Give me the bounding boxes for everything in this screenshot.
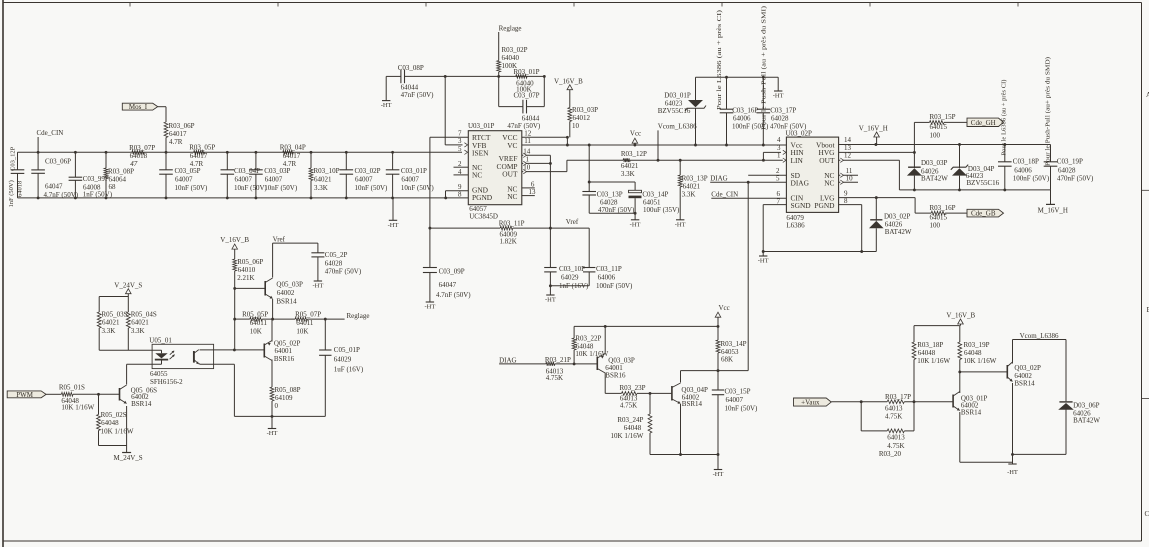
op-amp U03_02P body — [786, 129, 839, 212]
wire R05_05P row — [235, 318, 345, 321]
svg-text:C03_06P: C03_06P — [45, 158, 71, 166]
svg-text:Mos_I: Mos_I — [129, 103, 148, 111]
ground -HT under C03_01P — [388, 198, 399, 229]
svg-text:C03_08P: C03_08P — [398, 64, 424, 72]
U03_01P NC stubs left — [454, 167, 469, 175]
svg-text:-HT: -HT — [312, 283, 323, 290]
svg-text:64002: 64002 — [1014, 372, 1032, 380]
svg-text:R03_14P: R03_14P — [721, 340, 747, 348]
resistor R03_16P — [915, 204, 967, 230]
wire opto block bottom rail — [234, 415, 325, 417]
svg-text:10nF (50V): 10nF (50V) — [175, 184, 209, 192]
U03_01P left pin names — [472, 133, 493, 202]
svg-text:D03_06P: D03_06P — [1073, 401, 1100, 409]
node VFB junction dot — [444, 75, 447, 78]
svg-text:Cde_CIN: Cde_CIN — [37, 129, 64, 137]
svg-text:100nF (50V): 100nF (50V) — [1013, 175, 1050, 183]
svg-text:64051: 64051 — [643, 198, 661, 206]
svg-text:Vcc: Vcc — [719, 304, 730, 312]
svg-text:D03_01P: D03_01P — [664, 92, 691, 100]
svg-text:Pour le L6386 (au + près CI): Pour le L6386 (au + près CI) — [716, 10, 723, 110]
svg-text:64021: 64021 — [131, 319, 149, 327]
wire bootstrap top rail — [696, 77, 779, 91]
node DIAG (bottom label) — [499, 357, 516, 365]
power V_16V_H — [859, 124, 888, 144]
svg-text:BSR14: BSR14 — [961, 409, 982, 417]
svg-text:Pour le Push-Pull (au+ près du: Pour le Push-Pull (au+ près du SMD) — [1044, 57, 1051, 166]
svg-text:100: 100 — [930, 221, 941, 229]
svg-text:10nF (50V): 10nF (50V) — [725, 405, 759, 413]
resistor R05_01S — [59, 383, 95, 411]
wire pin7 RTCT — [430, 137, 468, 267]
svg-text:R03_21P: R03_21P — [545, 356, 571, 364]
op-amp U03_01P body — [468, 122, 522, 205]
ground -HT under R03_13P — [675, 220, 686, 229]
tag Cde_GH — [967, 118, 1004, 127]
svg-text:C03_14P: C03_14P — [642, 190, 668, 198]
svg-text:6: 6 — [777, 190, 781, 198]
svg-text:64047: 64047 — [439, 281, 457, 289]
svg-text:C03_17P: C03_17P — [770, 107, 796, 115]
svg-text:64006: 64006 — [733, 115, 751, 123]
wire pin13 HVG — [839, 151, 916, 154]
svg-text:V_16V_B: V_16V_B — [554, 78, 583, 86]
U03_01P part labels — [469, 205, 498, 220]
svg-text:1: 1 — [526, 155, 530, 163]
svg-text:OUT: OUT — [502, 170, 518, 179]
svg-text:C03_15P: C03_15P — [725, 388, 751, 396]
svg-text:64007: 64007 — [265, 176, 283, 184]
svg-text:470nF (50V): 470nF (50V) — [1057, 175, 1094, 183]
svg-text:DIAG: DIAG — [499, 357, 516, 365]
svg-text:64028: 64028 — [1058, 166, 1076, 174]
svg-text:100: 100 — [930, 132, 941, 140]
svg-text:Q05_03P: Q05_03P — [276, 280, 303, 288]
resistor R03_19P — [958, 326, 997, 374]
svg-text:3.3K: 3.3K — [131, 327, 145, 335]
resistor R03_22P — [572, 326, 608, 364]
U03_02P left pin names — [791, 140, 812, 210]
transistor Q03_01P (NPN) — [953, 372, 987, 462]
wire pin9 LVG — [839, 196, 916, 213]
svg-text:BSR16: BSR16 — [605, 372, 626, 380]
svg-text:100uF (35V): 100uF (35V) — [643, 206, 680, 214]
wire M_24V_S bottom — [99, 445, 127, 447]
svg-text:47: 47 — [130, 160, 138, 168]
svg-text:-HT: -HT — [773, 93, 784, 100]
svg-text:BZV55C16: BZV55C16 — [658, 107, 691, 115]
svg-text:10nF (50V): 10nF (50V) — [355, 184, 389, 192]
capacitor C03_15P — [712, 371, 758, 456]
svg-text:R03_03P: R03_03P — [572, 106, 598, 114]
svg-text:68: 68 — [109, 183, 117, 191]
svg-text:PGND: PGND — [814, 201, 835, 210]
svg-text:R05_03S: R05_03S — [102, 310, 128, 318]
resistor R05_03S — [97, 297, 127, 351]
U03_01P right pin names — [497, 133, 518, 201]
svg-text:64021: 64021 — [102, 319, 120, 327]
tag +Vaux — [794, 398, 832, 407]
resistor R03_23P — [620, 384, 672, 410]
svg-text:1.82K: 1.82K — [500, 237, 517, 245]
wire V_16V_B rail (aux) — [914, 325, 960, 327]
svg-text:10K 1/16W: 10K 1/16W — [611, 432, 644, 440]
svg-text:R03_11P: R03_11P — [499, 220, 525, 228]
wire pin6 CIN — [711, 197, 786, 199]
power Vcc (mid) — [630, 129, 641, 146]
svg-text:Cde_GB: Cde_GB — [971, 210, 996, 218]
svg-text:64011: 64011 — [250, 319, 268, 327]
resistor R05_02S — [97, 394, 134, 445]
tag Mos_I — [122, 103, 157, 111]
svg-text:D03_02P: D03_02P — [884, 212, 911, 220]
capacitor C03_16P — [720, 76, 769, 147]
ground -HT under C03_14P — [630, 220, 641, 229]
wire HIN loop — [762, 150, 786, 162]
resistor R05_04S — [126, 297, 156, 351]
svg-text:10K: 10K — [250, 327, 262, 335]
svg-text:V_16V_B: V_16V_B — [946, 311, 975, 319]
U03_02P right pin names — [814, 140, 835, 210]
node Vref (label) — [566, 218, 579, 226]
svg-text:U03_02P: U03_02P — [786, 129, 813, 137]
svg-text:D03_03P: D03_03P — [921, 159, 948, 167]
wire Vcc rail — [522, 144, 787, 147]
ground -HT aux block — [1007, 464, 1018, 476]
transistor Q05_06S (NPN) — [120, 364, 158, 445]
svg-text:64029: 64029 — [561, 274, 579, 282]
svg-text:BSR16: BSR16 — [274, 355, 295, 363]
svg-text:64007: 64007 — [355, 176, 373, 184]
power V_16V_B (top) — [554, 78, 583, 90]
resistor R05_07P — [295, 310, 321, 335]
svg-text:64018: 64018 — [130, 152, 148, 160]
svg-text:3.3K: 3.3K — [102, 327, 116, 335]
svg-text:64028: 64028 — [771, 115, 789, 123]
svg-text:10nF (50V): 10nF (50V) — [401, 184, 435, 192]
resistor R03_05P — [189, 144, 215, 168]
svg-text:R05_05P: R05_05P — [242, 310, 268, 318]
svg-text:C: C — [1145, 510, 1149, 518]
svg-text:470nF (50V): 470nF (50V) — [325, 267, 362, 275]
svg-text:-HT: -HT — [675, 221, 686, 228]
ground -HT SGND — [758, 252, 769, 265]
wire LED cathode return — [127, 363, 162, 365]
svg-text:C03_12P: C03_12P — [10, 146, 17, 171]
svg-text:4.7R: 4.7R — [169, 138, 183, 146]
frame zone ticks top — [130, 3, 1018, 7]
svg-text:13: 13 — [529, 188, 537, 196]
svg-text:Q03_02P: Q03_02P — [1014, 364, 1041, 372]
diode D03_02P — [869, 198, 912, 252]
svg-text:-HT: -HT — [758, 258, 769, 265]
power V_16V_B (aux) — [946, 311, 975, 325]
svg-text:64048: 64048 — [576, 342, 594, 350]
wire Vref to C03_11P — [550, 228, 589, 267]
svg-text:64017: 64017 — [190, 152, 208, 160]
capacitor C03_08P — [398, 64, 434, 99]
svg-text:2.21K: 2.21K — [237, 274, 254, 282]
svg-text:BSR14: BSR14 — [131, 400, 152, 408]
node Cde_CIN (label) — [37, 129, 64, 154]
svg-text:10K 1/16W: 10K 1/16W — [61, 404, 94, 412]
capacitor C03_14P (polarized) — [589, 182, 680, 220]
svg-text:11: 11 — [524, 137, 531, 145]
svg-text:R03_06P: R03_06P — [169, 122, 195, 130]
wire LED anode — [99, 349, 161, 351]
diode D03_01P — [658, 77, 706, 146]
tag PWM — [7, 391, 46, 399]
svg-text:5: 5 — [458, 145, 462, 153]
resistor R05_05P — [242, 310, 268, 335]
svg-text:R03_16P: R03_16P — [930, 204, 956, 212]
svg-text:NC: NC — [507, 192, 517, 201]
svg-text:-HT: -HT — [388, 222, 399, 229]
svg-text:U03_01P: U03_01P — [468, 122, 495, 130]
capacitor C03_09P — [423, 268, 471, 303]
svg-text:64055: 64055 — [150, 370, 168, 378]
svg-text:64006: 64006 — [1014, 166, 1032, 174]
svg-text:64007: 64007 — [401, 176, 419, 184]
power V_24V_S — [114, 281, 142, 296]
svg-text:Cde_GH: Cde_GH — [971, 119, 996, 127]
svg-text:R03_15P: R03_15P — [930, 113, 956, 121]
wire pin3 VFB — [445, 76, 467, 147]
wire DIAG block bottom rail — [650, 453, 718, 456]
svg-text:PGND: PGND — [472, 193, 493, 202]
svg-text:-HT: -HT — [381, 102, 392, 109]
resistor R03_10P — [309, 151, 340, 199]
U03_02P left pin numbers — [776, 136, 781, 206]
resistor R03_07P — [129, 144, 155, 168]
opto U05_01 phototransistor — [194, 350, 199, 365]
U03_02P NC stubs right — [839, 173, 858, 184]
svg-text:C05_01P: C05_01P — [334, 346, 360, 354]
pin5 ISEN arrow — [464, 150, 467, 154]
svg-text:8: 8 — [458, 191, 462, 199]
wire opto emitter drop — [200, 363, 235, 416]
svg-text:64047: 64047 — [45, 183, 63, 191]
svg-text:V_16V_B: V_16V_B — [220, 236, 249, 244]
svg-text:10K 1/16W: 10K 1/16W — [101, 428, 134, 436]
resistor R03_14P — [716, 326, 747, 372]
resistor R03_03P — [568, 90, 598, 138]
svg-text:R03_12P: R03_12P — [621, 150, 647, 158]
capacitor C03_18P — [998, 145, 1050, 190]
svg-text:BSR14: BSR14 — [682, 400, 703, 408]
svg-text:64015: 64015 — [930, 214, 948, 222]
svg-text:C03_13P: C03_13P — [597, 190, 623, 198]
node M_24V_S — [114, 446, 143, 463]
ground -HT under C03_10P — [545, 286, 556, 304]
svg-text:DIAG: DIAG — [710, 175, 728, 183]
frame zone ticks right — [1142, 190, 1149, 398]
svg-text:ISEN: ISEN — [472, 148, 489, 157]
capacitor C03_07P — [499, 75, 546, 130]
tag Cde_GB — [967, 209, 1004, 217]
diode D03_03P — [907, 152, 948, 190]
svg-text:Vref: Vref — [273, 236, 286, 244]
svg-text:64028: 64028 — [325, 260, 343, 268]
svg-text:8: 8 — [844, 197, 848, 205]
svg-text:Pour le L6386 (au + près CI): Pour le L6386 (au + près CI) — [1001, 80, 1008, 156]
resistor R03_18P — [912, 326, 950, 402]
wire DIAG line — [499, 362, 575, 365]
opto U05_01 body — [149, 337, 213, 369]
svg-text:64017: 64017 — [283, 152, 301, 160]
svg-text:L6386: L6386 — [786, 221, 805, 229]
svg-text:R03_18P: R03_18P — [917, 341, 943, 349]
svg-text:100nF (50V): 100nF (50V) — [596, 282, 633, 290]
node Reglage (top) — [499, 24, 522, 32]
wire aux bottom rail — [1013, 453, 1067, 455]
wire pin2 SD — [748, 174, 786, 176]
vertical note Pour le L6386 (right) — [1001, 80, 1008, 156]
resistor R03_15P — [914, 113, 967, 152]
svg-text:SFH6156-2: SFH6156-2 — [150, 378, 183, 386]
svg-text:R03_01P: R03_01P — [514, 68, 540, 76]
svg-text:0: 0 — [275, 402, 279, 410]
svg-text:470nF (50V): 470nF (50V) — [598, 206, 635, 214]
wire opto collector to base row — [200, 348, 265, 351]
svg-text:Vcc: Vcc — [630, 129, 641, 137]
svg-text:3.3K: 3.3K — [314, 184, 328, 192]
svg-text:10K 1/16W: 10K 1/16W — [964, 357, 997, 365]
wire Q03_02P base row — [960, 371, 1008, 373]
wire pin5 DIAG — [710, 181, 786, 184]
svg-text:R05_06P: R05_06P — [237, 258, 263, 266]
power V_16V_B (opto block) — [220, 236, 249, 259]
transistor Q03_02P (NPN) — [1007, 340, 1041, 465]
svg-text:4.75K: 4.75K — [887, 442, 904, 450]
wire pin9 GND — [444, 191, 468, 200]
resistor R03_12P — [621, 150, 647, 178]
svg-text:V_16V_H: V_16V_H — [859, 124, 888, 132]
node Vcom_L6386 (aux label) — [1020, 332, 1059, 340]
svg-text:1nF (50V): 1nF (50V) — [83, 191, 113, 199]
svg-text:Reglage: Reglage — [499, 24, 522, 32]
svg-text:-HT: -HT — [630, 221, 641, 228]
capacitor C03_02P — [340, 151, 389, 199]
wire pin7 SGND — [763, 205, 786, 252]
ground -HT opto block — [267, 416, 278, 437]
svg-text:-HT: -HT — [267, 430, 278, 437]
wire DIAG drop (SD/DIAG to transistor) — [681, 182, 749, 370]
svg-text:10K: 10K — [296, 327, 308, 335]
svg-text:-HT: -HT — [424, 304, 435, 311]
svg-text:BSR14: BSR14 — [276, 297, 297, 305]
resistor R03_11P — [428, 220, 551, 246]
svg-text:C03_99P: C03_99P — [83, 175, 109, 183]
ground -HT under C05_2P — [312, 281, 323, 290]
svg-text:OUT: OUT — [819, 156, 835, 165]
svg-text:C05_2P: C05_2P — [325, 251, 348, 259]
svg-text:V_24V_S: V_24V_S — [114, 281, 142, 289]
capacitor C03_04P — [221, 151, 268, 199]
svg-text:R03_24P: R03_24P — [617, 416, 643, 424]
svg-text:PWM: PWM — [16, 391, 34, 399]
transistor Q05_02P (PNP) — [264, 319, 300, 387]
capacitor C03_19P — [1044, 145, 1094, 190]
svg-text:64040: 64040 — [502, 54, 520, 62]
svg-text:Pour le Push-Pull (au + près d: Pour le Push-Pull (au + près du SMI) — [761, 6, 768, 130]
svg-text:BZV55C16: BZV55C16 — [967, 179, 1000, 187]
svg-text:64048: 64048 — [918, 349, 936, 357]
opto U05_01 part labels — [150, 370, 183, 386]
svg-text:Cde_CIN: Cde_CIN — [711, 191, 738, 199]
svg-text:R03_08P: R03_08P — [108, 168, 134, 176]
wire 24V resistor pair top — [99, 296, 128, 298]
capacitor C03_13P — [582, 144, 635, 215]
svg-text:4.7R: 4.7R — [283, 160, 297, 168]
ground -HT under C03_09P — [424, 302, 435, 311]
U03_01P NC stubs right — [522, 188, 535, 196]
node DIAG (label) — [710, 175, 728, 183]
svg-text:4.7R: 4.7R — [190, 160, 204, 168]
svg-text:C03_02P: C03_02P — [355, 167, 381, 175]
wire Vcom line — [1013, 339, 1067, 341]
node Vref (block label) — [273, 236, 286, 244]
svg-text:BSR14: BSR14 — [1014, 380, 1035, 388]
svg-text:3.3K: 3.3K — [682, 190, 696, 198]
capacitor C03_01P — [386, 151, 435, 199]
wire +Vaux line — [831, 400, 953, 403]
svg-text:R03_17P: R03_17P — [885, 393, 911, 401]
svg-text:-HT: -HT — [545, 297, 556, 304]
node Vcom_L6386 stub — [657, 123, 698, 162]
svg-text:R05_08P: R05_08P — [275, 386, 301, 394]
svg-text:C03_09P: C03_09P — [439, 268, 465, 276]
resistor R03_06P — [164, 122, 195, 154]
svg-text:M_16V_H: M_16V_H — [1038, 207, 1068, 215]
svg-text:R03_02P: R03_02P — [502, 46, 528, 54]
svg-text:R03_22P: R03_22P — [575, 335, 601, 343]
svg-text:64015: 64015 — [930, 123, 948, 131]
resistor R03_24P — [611, 393, 652, 454]
svg-text:VC: VC — [507, 141, 517, 150]
wire lower gate rail — [899, 188, 1050, 191]
svg-text:C03_11P: C03_11P — [596, 265, 622, 273]
resistor R03_13P — [678, 159, 707, 220]
svg-text:64007: 64007 — [726, 396, 744, 404]
node Cde_CIN (mid label) — [711, 191, 738, 199]
vertical note Pour le L6386 (left) — [716, 10, 723, 110]
svg-text:C03_18P: C03_18P — [1013, 158, 1039, 166]
node M_16V_H — [1038, 190, 1068, 215]
svg-text:64109: 64109 — [275, 394, 293, 402]
svg-text:64007: 64007 — [175, 176, 193, 184]
frame zone letter A — [1146, 91, 1149, 99]
U03_01P left pin numbers — [458, 130, 462, 199]
svg-text:64010: 64010 — [238, 266, 256, 274]
wire PWM line — [46, 393, 119, 396]
wire ISEN rail (top) — [18, 151, 463, 153]
frame zone letter C — [1145, 510, 1149, 518]
wire SGND bottom rail — [762, 250, 877, 253]
U03_02P right pin numbers — [844, 136, 853, 205]
svg-text:R05_01S: R05_01S — [59, 383, 85, 391]
resistor R03_02P — [497, 32, 528, 78]
capacitor C03_06P — [31, 152, 78, 199]
svg-text:NC: NC — [472, 171, 482, 180]
resistor R03_21P — [545, 356, 597, 382]
wire R03_12P net (OUT to LIN) — [567, 159, 787, 161]
svg-text:64028: 64028 — [600, 198, 618, 206]
svg-text:1uF (16V): 1uF (16V) — [334, 366, 364, 374]
U03_01P right pin numbers — [523, 130, 536, 197]
capacitor C03_17P — [757, 76, 808, 147]
power Vcc (DIAG block) — [715, 304, 730, 326]
